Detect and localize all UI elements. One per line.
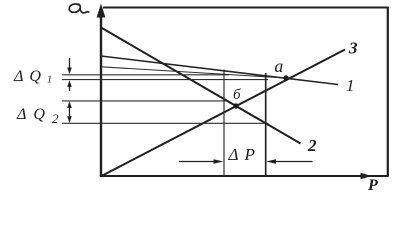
svg-text:ΔP: ΔP: [228, 145, 261, 164]
top frame line: [103, 7, 388, 9]
svg-text:3: 3: [348, 39, 358, 58]
quantity line Q2 upper: [62, 100, 227, 102]
supply line 3: [102, 50, 346, 177]
right frame line: [387, 7, 389, 176]
P axis: [100, 173, 389, 179]
auxiliary line to point a: [101, 67, 286, 78]
quantity line Q1 lower: [62, 79, 268, 81]
svg-text:2: 2: [307, 136, 317, 155]
ΔQ1 arrows: [67, 58, 72, 91]
point a dot: [283, 75, 288, 80]
axis label Q: [69, 4, 89, 13]
point б dot: [233, 103, 238, 108]
demand line 2: [101, 28, 301, 144]
svg-text:1: 1: [346, 76, 355, 95]
demand line 1: [101, 56, 338, 85]
ΔP arrows: [179, 159, 313, 164]
quantity line Q2 lower: [62, 122, 269, 124]
svg-text:P: P: [367, 177, 378, 194]
price vertical line left: [223, 70, 225, 176]
price vertical line right: [265, 73, 267, 176]
svg-text:a: a: [275, 56, 284, 76]
ΔQ2 arrow: [67, 101, 72, 123]
Q axis: [97, 4, 106, 177]
quantity line Q1 upper: [62, 74, 229, 76]
svg-text:б: б: [233, 87, 241, 103]
